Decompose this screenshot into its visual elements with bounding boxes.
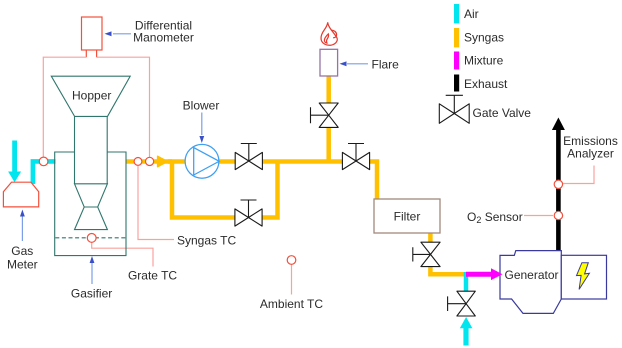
legend syngas swatch [454, 28, 459, 47]
svg-text:O2 Sensor: O2 Sensor [467, 210, 523, 225]
leader line O2 Sensor [524, 215, 553, 217]
svg-text:Blower: Blower [183, 99, 220, 113]
wire: filter outlet to mixing tee [430, 232, 466, 274]
generator body [500, 251, 561, 314]
svg-text:Syngas: Syngas [464, 31, 504, 45]
generator alternator box [561, 255, 606, 299]
wire: syngas main line [168, 162, 377, 202]
flame icon [321, 22, 337, 45]
valve V5 after filter (vertical) [413, 242, 440, 266]
legend mixture swatch [454, 52, 459, 70]
leader line Grate TC [92, 242, 153, 266]
leader line Ambient TC [291, 264, 293, 294]
hopper neck [75, 116, 108, 183]
svg-text:Syngas TC: Syngas TC [177, 234, 236, 248]
leader line Emissions Analyzer [562, 166, 594, 184]
svg-text:Ambient TC: Ambient TC [260, 297, 323, 311]
blower B1 [185, 144, 219, 178]
svg-text:Mixture: Mixture [464, 54, 504, 68]
flare box [320, 49, 338, 76]
legend gate valve symbol [439, 95, 469, 123]
gasifier funnel lower [75, 207, 108, 230]
arrow to blower [201, 113, 203, 136]
gasifier grate dashed line [55, 237, 125, 239]
svg-text:Exhaust: Exhaust [464, 77, 508, 91]
legend air swatch [454, 4, 459, 23]
manometer tube right (pink) [97, 57, 150, 157]
valve V4 main line before filter [342, 144, 369, 170]
arrow to flare [347, 63, 368, 65]
valve V6 air inlet (vertical) [448, 291, 476, 316]
exhaust arrowhead [552, 118, 565, 131]
TC circle syngas outlet (manometer tap) [146, 157, 154, 165]
air inlet arrow top-left [12, 141, 17, 173]
svg-text:Air: Air [464, 7, 479, 21]
filter box [374, 199, 440, 233]
exhaust line (black) [556, 129, 561, 251]
valve V1 main line after blower [235, 144, 262, 170]
svg-text:Gasifier: Gasifier [71, 287, 112, 301]
wire: air pipe bottom to mixing tee [464, 272, 469, 292]
svg-text:Flare: Flare [372, 58, 400, 72]
differential manometer box [82, 17, 103, 50]
hopper [51, 76, 130, 116]
legend exhaust swatch [454, 75, 459, 92]
Grate TC circle [87, 234, 96, 243]
arrow to manometer [113, 33, 131, 35]
gasifier funnel upper [75, 184, 108, 207]
O2 sensor circle upper [554, 180, 562, 188]
leader line Syngas TC [138, 166, 174, 240]
wire: flare riser [326, 74, 331, 162]
svg-text:Manometer: Manometer [133, 31, 194, 45]
svg-text:Hopper: Hopper [72, 89, 111, 103]
wire: air pipe gas meter to gasifier [33, 161, 56, 184]
Ambient TC circle [287, 256, 296, 265]
wire: syngas bypass loop [172, 162, 278, 218]
lightning bolt [577, 263, 590, 290]
valve V3 flare riser (vertical) [311, 103, 339, 127]
svg-text:Generator: Generator [504, 268, 558, 282]
air inlet arrow bottom [463, 328, 468, 346]
syngas arrow at gasifier outlet [158, 156, 168, 166]
svg-text:Analyzer: Analyzer [567, 147, 614, 161]
arrow to gasifier [91, 263, 93, 284]
wire: syngas pipe gasifier outlet [126, 159, 172, 164]
manometer leg left (red) [85, 50, 87, 58]
valve V2 bypass [235, 200, 262, 226]
svg-text:Filter: Filter [394, 210, 421, 224]
svg-text:Meter: Meter [7, 258, 38, 272]
svg-text:Gate Valve: Gate Valve [473, 106, 532, 120]
manometer tube left (pink) [43, 57, 86, 156]
TC circle syngas outlet (Syngas TC) [134, 158, 142, 166]
gasifier body [55, 152, 126, 256]
mixture arrow into generator [466, 272, 492, 277]
TC circle on air inlet pipe [39, 157, 48, 166]
O2 sensor circle lower [554, 211, 562, 219]
arrow to gas meter [21, 217, 23, 242]
gas meter [3, 182, 38, 207]
svg-text:Grate TC: Grate TC [128, 269, 177, 283]
manometer leg right (red) [96, 50, 98, 58]
svg-text:Gas: Gas [11, 244, 33, 258]
